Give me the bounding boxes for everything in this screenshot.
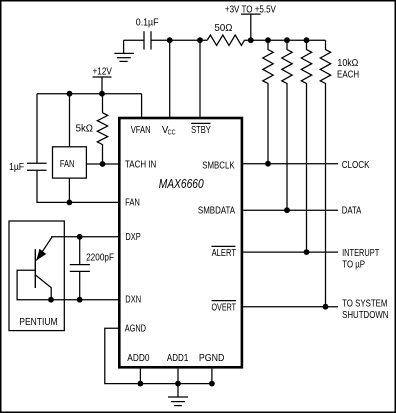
transistor Q1 collector (35, 275, 51, 300)
wire DXP (51, 236, 118, 238)
wire OVERT (243, 306, 338, 308)
svg-text:FAN: FAN (60, 159, 75, 170)
svg-text:10kΩ: 10kΩ (337, 58, 358, 69)
svg-text:INTERUPT: INTERUPT (342, 248, 380, 259)
svg-text:TACH IN: TACH IN (125, 159, 156, 170)
svg-text:CC: CC (168, 129, 176, 136)
resistor pullup 3 (10k) (301, 40, 311, 252)
svg-text:EACH: EACH (337, 70, 359, 81)
node clock (265, 161, 271, 167)
node 12V rail 5k (99, 91, 105, 97)
transistor Q1 emitter arrowhead (36, 249, 46, 261)
svg-text:OVERT: OVERT (212, 303, 237, 314)
+12V rail (37, 93, 142, 95)
FAN box (53, 147, 87, 178)
wire SMBDATA (243, 209, 338, 211)
supply terminal +3V TO +5.5V (241, 14, 261, 40)
wire C1 to 50ohm resistor (151, 39, 207, 41)
svg-text:ALERT: ALERT (212, 248, 237, 259)
node VCC top (167, 37, 173, 43)
node alert (304, 249, 310, 255)
svg-text:MAX6660: MAX6660 (159, 176, 205, 191)
wire STBY pin (199, 40, 201, 117)
resistor pullup 4 (10k) (320, 40, 330, 307)
node pullup3 (304, 37, 310, 43)
node fan return (67, 200, 73, 206)
svg-text:0.1µF: 0.1µF (136, 17, 159, 28)
node DXN cap (77, 297, 83, 303)
wire AGND (105, 328, 212, 383)
svg-text:SMBDATA: SMBDATA (198, 206, 235, 217)
PENTIUM box (9, 221, 64, 331)
node pullup1 (265, 37, 271, 43)
wire DXN (51, 299, 118, 301)
capacitor 2200pF leads (79, 237, 81, 265)
node ADD1 (175, 381, 181, 387)
svg-text:SHUTDOWN: SHUTDOWN (342, 310, 388, 321)
node pullup2 (284, 37, 290, 43)
node tach (100, 161, 106, 167)
svg-text:STBY: STBY (191, 125, 211, 136)
resistor pullup 1 (10k) (263, 40, 273, 164)
svg-text:FAN: FAN (125, 197, 140, 208)
svg-text:PENTIUM: PENTIUM (19, 317, 57, 328)
svg-text:+3V TO +5.5V: +3V TO +5.5V (225, 4, 276, 15)
op IC U1 MAX6660 box (119, 118, 242, 367)
wire 1uF branch down (36, 94, 38, 164)
transistor Q1 base bar (34, 249, 36, 288)
wire SMBCLK (243, 163, 338, 165)
svg-text:50Ω: 50Ω (215, 23, 233, 34)
svg-text:5kΩ: 5kΩ (76, 124, 94, 135)
node supply (248, 37, 254, 43)
wire VCC pin (169, 40, 171, 117)
svg-text:+12V: +12V (93, 67, 112, 78)
svg-text:DXN: DXN (125, 294, 141, 305)
svg-text:ADD1: ADD1 (167, 353, 189, 364)
transistor Q1 base wire (17, 270, 51, 300)
svg-text:DXP: DXP (125, 232, 140, 243)
wire PGND lead (211, 369, 213, 384)
wire VFAN pin (141, 94, 143, 117)
ground (bottom) (168, 384, 188, 406)
svg-text:DATA: DATA (342, 206, 362, 217)
node PGND (209, 381, 215, 387)
wire ground to C1 (124, 39, 144, 41)
svg-text:TO SYSTEM: TO SYSTEM (342, 299, 387, 310)
wire ADD0 lead (139, 369, 141, 384)
svg-text:SMBCLK: SMBCLK (202, 161, 234, 172)
wire ALERT (243, 251, 338, 253)
svg-text:2200pF: 2200pF (86, 253, 114, 264)
wire FAN box bottom lead (68, 178, 70, 202)
node STBY top (197, 37, 203, 43)
resistor 50ohm (207, 35, 244, 45)
svg-text:AGND: AGND (125, 324, 146, 335)
resistor pullup 2 (10k) (282, 40, 292, 210)
svg-text:1µF: 1µF (9, 162, 24, 173)
node ADD0 (138, 381, 144, 387)
wire 50ohm to corner (244, 39, 325, 41)
node DXP (77, 234, 83, 240)
svg-text:ADD0: ADD0 (127, 353, 149, 364)
svg-text:PGND: PGND (199, 353, 225, 364)
wire TACH IN (86, 163, 118, 165)
node data (284, 207, 290, 213)
svg-text:VFAN: VFAN (131, 125, 151, 136)
svg-text:CLOCK: CLOCK (342, 160, 370, 171)
capacitor 2200pF plates (70, 265, 90, 272)
node overt (323, 304, 329, 310)
ground (0.1uF return) (114, 40, 134, 61)
wire FAN box top lead (69, 94, 71, 147)
node 12V rail fan (67, 91, 73, 97)
node DXN collector (48, 297, 54, 303)
capacitor 1uF (27, 163, 47, 170)
+12V terminal (93, 77, 112, 94)
svg-text:TO µP: TO µP (342, 260, 365, 271)
wire 1uF to FAN return (37, 170, 118, 202)
capacitor C1 0.1uF (144, 31, 151, 49)
wire ADD1 lead (177, 369, 179, 384)
resistor 5k (97, 94, 107, 164)
transistor Q1 emitter (36, 237, 52, 261)
